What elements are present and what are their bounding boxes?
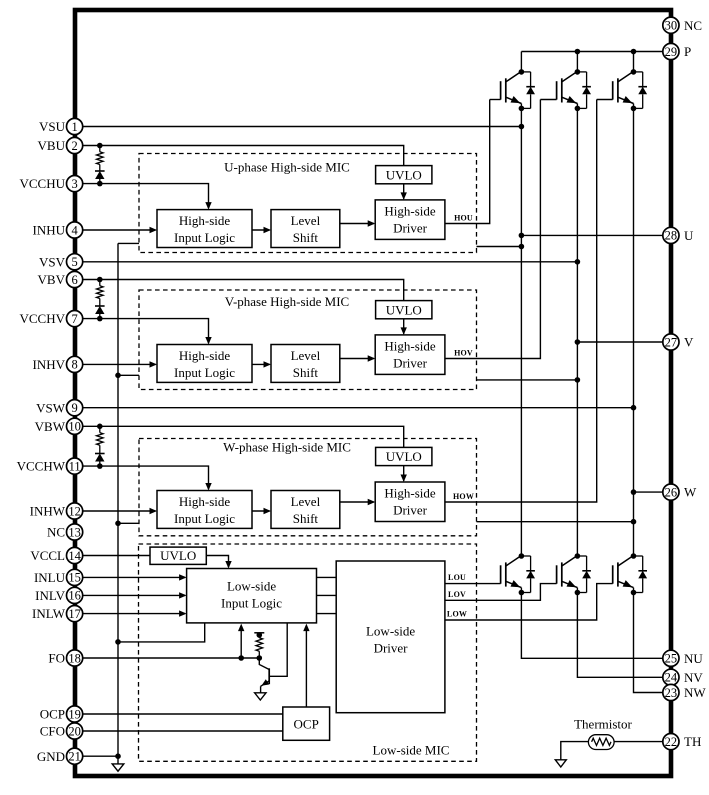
svg-text:6: 6 xyxy=(71,273,77,287)
svg-text:GND: GND xyxy=(37,749,65,764)
svg-text:FO: FO xyxy=(48,651,65,666)
svg-text:UVLO: UVLO xyxy=(386,167,422,182)
pin 3 VCCHU xyxy=(19,176,82,192)
svg-text:Level: Level xyxy=(291,213,321,228)
wire VCCHW to input logic xyxy=(83,466,212,490)
svg-text:Shift: Shift xyxy=(293,230,319,245)
svg-text:High-side: High-side xyxy=(179,348,231,363)
diode D6 freewheel xyxy=(634,556,648,593)
wire VCCHV to input logic xyxy=(83,319,212,345)
wire low-side COM branch xyxy=(118,623,205,642)
resistor bootstrap W xyxy=(97,424,104,454)
transistor Q6 low-side W xyxy=(613,553,637,595)
wire V-phase COM branch xyxy=(118,374,139,376)
svg-text:INHV: INHV xyxy=(33,357,66,372)
low-side input logic box xyxy=(187,569,317,623)
wire VSV line xyxy=(83,261,578,263)
svg-text:Low-side MIC: Low-side MIC xyxy=(373,743,450,758)
pin 24 NV xyxy=(663,669,704,685)
svg-text:VBU: VBU xyxy=(38,138,66,153)
svg-text:INHU: INHU xyxy=(33,223,66,238)
arrow level shift to driver U xyxy=(340,220,375,226)
arrow input logic to level shift V xyxy=(252,361,271,367)
svg-text:18: 18 xyxy=(68,651,81,665)
svg-text:VCCL: VCCL xyxy=(30,548,65,563)
wire FO line xyxy=(83,655,262,661)
pin 15 INLU xyxy=(34,569,83,585)
svg-text:5: 5 xyxy=(71,255,77,269)
svg-text:7: 7 xyxy=(71,312,77,326)
wire VBW to UVLO xyxy=(83,426,404,447)
node P rail W xyxy=(631,49,637,55)
svg-text:OCP: OCP xyxy=(294,716,319,731)
node W-phase COM xyxy=(115,521,121,527)
pin 29 P xyxy=(663,43,691,59)
supply tick pull-up xyxy=(254,632,264,638)
node VSU on rail xyxy=(519,124,525,130)
svg-text:NU: NU xyxy=(684,651,703,666)
wire U-phase COM branch xyxy=(118,242,139,244)
wire VCCHU to input logic xyxy=(83,184,212,210)
svg-text:22: 22 xyxy=(665,735,678,749)
svg-text:VCCHV: VCCHV xyxy=(19,311,65,326)
wire INLV input xyxy=(83,592,187,598)
svg-text:UVLO: UVLO xyxy=(386,302,422,317)
pin 26 W xyxy=(663,484,697,500)
resistor FO pull-up xyxy=(256,635,263,658)
svg-text:15: 15 xyxy=(68,571,81,585)
svg-text:29: 29 xyxy=(665,45,678,59)
wire GND bus vertical xyxy=(117,243,119,756)
svg-text:High-side: High-side xyxy=(179,494,231,509)
label W-phase high-side MIC xyxy=(223,440,351,455)
svg-text:VSU: VSU xyxy=(39,119,66,134)
high-side driver box V-phase xyxy=(375,335,445,375)
svg-text:Input Logic: Input Logic xyxy=(174,511,235,526)
pin 2 VBU xyxy=(38,137,83,153)
arrow level shift to driver V xyxy=(340,355,375,361)
svg-text:8: 8 xyxy=(71,358,77,372)
transistor Q3 high-side W xyxy=(613,69,637,111)
level shift box U-phase xyxy=(271,210,340,248)
level shift box V-phase xyxy=(271,345,340,383)
label HOV xyxy=(454,348,473,357)
pin 5 VSV xyxy=(39,254,83,270)
dashed box low-side MIC xyxy=(139,544,477,761)
svg-text:VSW: VSW xyxy=(36,400,66,415)
OCP box xyxy=(283,707,330,740)
svg-text:Low-side: Low-side xyxy=(227,579,276,594)
svg-text:U: U xyxy=(684,228,694,243)
gate lead Q2 high-side V xyxy=(540,99,556,101)
arrow input logic to level shift U xyxy=(252,227,271,233)
wire W-phase COM branch xyxy=(118,522,139,524)
svg-text:Input Logic: Input Logic xyxy=(174,365,235,380)
wire OCP pin to OCP box xyxy=(83,713,283,715)
svg-text:11: 11 xyxy=(69,459,81,473)
svg-text:INHW: INHW xyxy=(30,504,66,519)
svg-text:High-side: High-side xyxy=(384,338,436,353)
node VSV on rail xyxy=(575,259,581,265)
pin 16 INLV xyxy=(35,587,83,603)
svg-text:HOV: HOV xyxy=(454,348,473,357)
label LOV xyxy=(448,590,466,599)
svg-text:VBW: VBW xyxy=(35,419,66,434)
svg-text:P: P xyxy=(684,44,691,59)
wire VCCL to UVLO xyxy=(83,555,150,557)
svg-text:27: 27 xyxy=(665,335,678,349)
svg-text:Level: Level xyxy=(291,494,321,509)
wire thermistor to ground xyxy=(561,742,589,760)
arrow FO sense to input logic xyxy=(238,624,244,658)
label HOU xyxy=(454,213,473,222)
svg-text:Thermistor: Thermistor xyxy=(574,717,632,732)
wire emitter Q6 low-side W to N pin xyxy=(634,588,663,693)
diode D2 freewheel xyxy=(577,72,591,109)
pin 12 INHW xyxy=(30,503,83,519)
svg-text:INLW: INLW xyxy=(32,606,66,621)
node phase W output xyxy=(631,489,637,495)
svg-text:23: 23 xyxy=(665,686,678,700)
svg-text:12: 12 xyxy=(68,504,81,518)
svg-text:1: 1 xyxy=(71,120,77,134)
thermistor RT xyxy=(588,735,614,750)
svg-text:28: 28 xyxy=(665,229,678,243)
resistor bootstrap V xyxy=(97,277,104,306)
diode D3 freewheel xyxy=(634,72,648,109)
UVLO box V-phase xyxy=(376,301,432,319)
wire input logic to driver INLW xyxy=(317,613,337,615)
wire UVLO to input logic low-side xyxy=(206,556,231,569)
low-side driver box xyxy=(336,561,445,713)
pin 6 VBV xyxy=(38,271,83,287)
ground symbol GND xyxy=(112,756,124,771)
label U-phase high-side MIC xyxy=(224,160,350,175)
node low-side COM xyxy=(115,639,121,645)
diode D1 freewheel xyxy=(521,72,535,109)
svg-text:CFO: CFO xyxy=(40,724,65,739)
wire collector Q3 high-side W xyxy=(633,52,635,72)
arrow UVLO to driver U xyxy=(401,184,407,200)
svg-text:NW: NW xyxy=(684,685,706,700)
svg-text:Low-side: Low-side xyxy=(366,624,415,639)
pin 20 CFO xyxy=(40,723,83,739)
diode bootstrap U xyxy=(95,171,105,186)
level shift box W-phase xyxy=(271,491,340,529)
UVLO box low-side xyxy=(150,547,206,564)
high-side input logic box V-phase xyxy=(157,345,252,383)
svg-text:14: 14 xyxy=(68,549,81,563)
pin 8 INHV xyxy=(33,356,83,372)
svg-text:VCCHW: VCCHW xyxy=(17,459,66,474)
wire INLW input xyxy=(83,610,187,616)
svg-text:16: 16 xyxy=(68,589,81,603)
UVLO box U-phase xyxy=(376,166,432,184)
svg-text:30: 30 xyxy=(665,19,678,33)
svg-text:26: 26 xyxy=(665,485,678,499)
svg-text:NV: NV xyxy=(684,670,703,685)
svg-text:LOV: LOV xyxy=(448,590,466,599)
wire VS return U xyxy=(477,244,525,250)
wire W output line xyxy=(634,491,663,493)
svg-text:Level: Level xyxy=(291,348,321,363)
high-side driver box U-phase xyxy=(375,200,445,240)
pin 28 U xyxy=(663,227,694,243)
wire INHV input xyxy=(83,361,157,367)
wire CFO pin to OCP box xyxy=(83,730,283,732)
wire INLU input xyxy=(83,574,187,580)
svg-text:High-side: High-side xyxy=(384,203,436,218)
arrow input logic to level shift W xyxy=(252,508,271,514)
pin 1 VSU xyxy=(39,118,83,134)
svg-text:High-side: High-side xyxy=(179,213,231,228)
svg-text:VSV: VSV xyxy=(39,254,66,269)
pin 18 FO xyxy=(48,650,82,666)
svg-text:Driver: Driver xyxy=(393,355,428,370)
svg-text:4: 4 xyxy=(71,223,78,237)
svg-text:2: 2 xyxy=(71,139,77,153)
dashed box V-phase high-side MIC xyxy=(139,290,477,390)
node VSW on rail xyxy=(631,405,637,411)
arrow level shift to driver W xyxy=(340,499,375,505)
svg-text:Driver: Driver xyxy=(393,220,428,235)
svg-text:Input Logic: Input Logic xyxy=(174,230,235,245)
wire HOU output to gate xyxy=(445,100,490,224)
svg-text:VBV: VBV xyxy=(38,272,66,287)
high-side input logic box U-phase xyxy=(157,210,252,248)
wire LOW gate xyxy=(445,584,613,620)
wire collector Q2 high-side V xyxy=(576,52,578,72)
pin 23 NW xyxy=(663,684,707,700)
wire INHW input xyxy=(83,508,157,514)
svg-text:20: 20 xyxy=(68,724,81,738)
svg-text:17: 17 xyxy=(68,607,81,621)
pin 19 OCP xyxy=(40,706,83,722)
wire LOV gate xyxy=(445,584,557,601)
svg-text:INLU: INLU xyxy=(34,570,66,585)
svg-text:W: W xyxy=(684,485,697,500)
pin 4 INHU xyxy=(33,222,83,238)
svg-text:V: V xyxy=(684,335,694,350)
UVLO box W-phase xyxy=(376,447,432,465)
svg-text:HOU: HOU xyxy=(454,213,473,222)
wire VS return V xyxy=(477,377,581,383)
svg-text:NC: NC xyxy=(684,18,702,33)
svg-text:21: 21 xyxy=(68,750,81,764)
svg-text:Shift: Shift xyxy=(293,365,319,380)
svg-text:Driver: Driver xyxy=(393,503,428,518)
wire VS return W xyxy=(477,519,637,525)
diode bootstrap V xyxy=(95,306,105,321)
wire TH pin to thermistor xyxy=(614,741,663,743)
label HOW xyxy=(453,492,474,501)
ground symbol BJT emitter xyxy=(255,693,266,700)
svg-text:INLV: INLV xyxy=(35,588,65,603)
transistor Q2 high-side V xyxy=(557,69,581,111)
wire LOU gate xyxy=(445,583,501,585)
svg-text:24: 24 xyxy=(665,671,678,685)
diode bootstrap W xyxy=(95,454,105,469)
wire P rail xyxy=(521,51,662,53)
wire INHU input xyxy=(83,227,157,233)
svg-text:High-side: High-side xyxy=(384,486,436,501)
arrow UVLO to driver W xyxy=(401,466,407,482)
wire GND pin xyxy=(83,753,121,759)
pin 25 NU xyxy=(663,650,704,666)
pin 13 NC xyxy=(47,524,83,540)
node V-phase COM xyxy=(115,373,121,379)
wire VSW line xyxy=(83,407,634,409)
node phase V output xyxy=(575,339,581,345)
wire input logic to driver INLV xyxy=(317,594,337,596)
wire U output line xyxy=(521,234,662,236)
gate lead Q3 high-side W xyxy=(597,99,613,101)
wire VSU line xyxy=(83,126,522,128)
label low-side MIC xyxy=(373,743,450,758)
wire VBU to UVLO xyxy=(83,146,404,166)
wire input logic to driver INLU xyxy=(317,576,337,578)
svg-text:Input Logic: Input Logic xyxy=(221,596,282,611)
dashed box W-phase high-side MIC xyxy=(139,439,477,536)
pin 11 VCCHW xyxy=(17,458,83,474)
arrow OCP to input logic xyxy=(303,624,309,707)
pin 9 VSW xyxy=(36,400,83,416)
svg-text:VCCHU: VCCHU xyxy=(19,176,65,191)
svg-text:OCP: OCP xyxy=(40,707,65,722)
pin 27 V xyxy=(663,334,694,350)
arrow UVLO to driver V xyxy=(401,319,407,335)
pin 10 VBW xyxy=(35,418,83,434)
label LOW xyxy=(447,610,467,619)
transistor Q4 low-side U xyxy=(501,553,525,595)
wire emitter Q4 low-side U to N pin xyxy=(521,588,662,659)
svg-text:19: 19 xyxy=(68,707,81,721)
transistor Q7 fault output BJT xyxy=(259,623,287,693)
svg-text:UVLO: UVLO xyxy=(160,548,196,563)
transistor Q5 low-side V xyxy=(557,553,581,595)
label Thermistor xyxy=(574,717,632,732)
wire emitter rail Q1 high-side U xyxy=(520,104,522,557)
gate lead Q1 high-side U xyxy=(490,99,501,101)
pin 17 INLW xyxy=(32,606,83,622)
svg-text:Driver: Driver xyxy=(374,641,409,656)
wire VBV to UVLO xyxy=(83,280,404,301)
svg-text:LOU: LOU xyxy=(448,573,466,582)
high-side input logic box W-phase xyxy=(157,491,252,529)
svg-text:V-phase High-side MIC: V-phase High-side MIC xyxy=(225,294,349,309)
wire emitter rail Q2 high-side V xyxy=(576,104,578,557)
label LOU xyxy=(448,573,466,582)
svg-text:W-phase High-side MIC: W-phase High-side MIC xyxy=(223,440,351,455)
node phase U output xyxy=(519,233,525,239)
pin 7 VCCHV xyxy=(19,311,82,327)
node P rail V xyxy=(575,49,581,55)
dashed box U-phase high-side MIC xyxy=(139,154,477,253)
resistor bootstrap U xyxy=(97,143,104,171)
svg-text:13: 13 xyxy=(68,525,81,539)
pin 14 VCCL xyxy=(30,547,82,563)
wire collector Q1 high-side U xyxy=(520,52,522,72)
wire HOW output to gate xyxy=(445,100,597,503)
high-side driver box W-phase xyxy=(375,482,445,522)
pin 30 NC xyxy=(663,17,702,33)
diode D5 freewheel xyxy=(577,556,591,593)
pin 21 GND xyxy=(37,748,83,764)
svg-text:U-phase High-side MIC: U-phase High-side MIC xyxy=(224,160,350,175)
label V-phase high-side MIC xyxy=(225,294,349,309)
ground symbol thermistor xyxy=(555,760,566,767)
svg-text:25: 25 xyxy=(665,652,678,666)
svg-text:HOW: HOW xyxy=(453,492,474,501)
svg-text:10: 10 xyxy=(68,420,81,434)
svg-text:Shift: Shift xyxy=(293,511,319,526)
wire emitter Q5 low-side V to N pin xyxy=(577,588,662,678)
svg-text:9: 9 xyxy=(71,401,77,415)
wire HOV output to gate xyxy=(445,100,541,359)
transistor Q1 high-side U xyxy=(501,69,525,111)
svg-text:TH: TH xyxy=(684,734,701,749)
pin 22 TH xyxy=(663,734,702,750)
wire V output line xyxy=(577,341,662,343)
svg-text:UVLO: UVLO xyxy=(386,449,422,464)
svg-text:LOW: LOW xyxy=(447,610,467,619)
svg-text:NC: NC xyxy=(47,525,65,540)
svg-text:3: 3 xyxy=(71,177,77,191)
wire emitter rail Q3 high-side W xyxy=(633,104,635,557)
diode D4 freewheel xyxy=(521,556,535,593)
